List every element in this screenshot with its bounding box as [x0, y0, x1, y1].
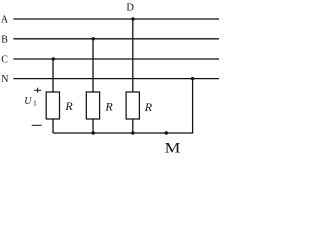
- resistor R2 body: [86, 92, 99, 119]
- svg-text:1: 1: [33, 99, 37, 108]
- wire: resistor R3 bottom lead: [132, 119, 134, 133]
- svg-text:R: R: [64, 99, 73, 113]
- svg-text:M: M: [165, 139, 181, 156]
- wire line A (phase A bus): [13, 18, 219, 20]
- svg-text:R: R: [104, 100, 113, 114]
- node D junction dot on line A: [131, 17, 134, 20]
- polarity minus sign of U1: [32, 124, 42, 126]
- wire line C (phase C bus): [13, 58, 219, 60]
- wire: resistor R2 bottom lead: [92, 119, 94, 133]
- node junction dot on line N: [191, 77, 194, 80]
- svg-text:N: N: [1, 74, 8, 85]
- svg-text:A: A: [1, 15, 9, 26]
- wire: right drop from line N to bottom bus: [53, 79, 193, 133]
- node junction dot on line B: [92, 37, 95, 40]
- polarity plus sign of U1: [34, 88, 41, 93]
- node M dot on bottom bus: [165, 131, 168, 134]
- node junction dot: R2 lead on bottom bus: [92, 131, 95, 134]
- wire line B (phase B bus): [13, 38, 219, 40]
- resistor R1 body: [46, 92, 59, 119]
- svg-text:R: R: [144, 100, 153, 114]
- node junction dot: R3 lead on bottom bus: [131, 131, 134, 134]
- svg-text:U: U: [24, 96, 32, 107]
- wire: drop from line B to resistor R2: [92, 39, 94, 92]
- resistor R3 body: [126, 92, 139, 119]
- wire: resistor R1 bottom lead: [52, 119, 54, 133]
- wire: drop from node D on line A to resistor R3: [132, 19, 134, 92]
- wire line N (neutral bus): [13, 78, 219, 80]
- wire: drop from line C to resistor R1: [52, 59, 54, 92]
- node junction dot on line C: [52, 57, 55, 60]
- svg-text:C: C: [1, 55, 8, 66]
- svg-text:B: B: [1, 35, 8, 46]
- svg-text:D: D: [126, 2, 134, 13]
